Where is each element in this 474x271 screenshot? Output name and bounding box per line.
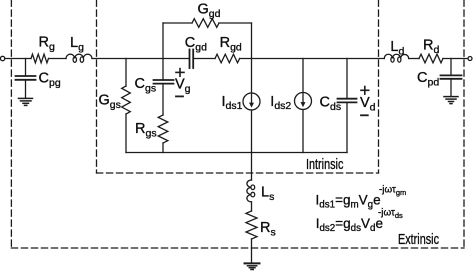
wire down to C_pg: [25, 59, 27, 77]
wire R_d to port (drain): [443, 58, 468, 60]
wire L_g to gate node: [92, 58, 189, 60]
wire port to R_g: [5, 58, 31, 60]
wire C_gd to R_gd: [193, 58, 215, 60]
svg-text:Extrinsic: Extrinsic: [398, 230, 440, 247]
resistor R_d: [419, 54, 443, 63]
current source I_ds2: [295, 93, 312, 110]
wire C_pd to ground: [450, 79, 452, 96]
V_d minus sign: [361, 114, 368, 116]
inductor L_g: [66, 54, 92, 58]
G_gs branch wire bottom: [125, 114, 127, 153]
capacitor C_gs: [154, 79, 174, 81]
port (gate): [0, 56, 4, 60]
wire R_g to L_g: [49, 58, 67, 60]
resistor R_g: [31, 54, 49, 63]
wire G_gd left: [163, 22, 192, 24]
capacitor C_pd: [441, 74, 462, 76]
intrinsic box right dashed edge: [378, 0, 380, 173]
capacitor C_ds: [338, 98, 357, 100]
current source I_ds1: [243, 93, 260, 110]
intrinsic box left dashed edge: [96, 0, 98, 173]
drain node down to I_ds1: [251, 59, 253, 94]
extrinsic box bottom dashed edge: [11, 247, 464, 249]
wire C_gs to R_gs: [162, 84, 164, 115]
ground (under R_s): [245, 262, 260, 264]
svg-text:Intrinsic: Intrinsic: [306, 155, 344, 172]
wire L_d to R_d: [409, 58, 419, 60]
wire G_gd down to drain node: [251, 23, 253, 59]
capacitor C_pg: [16, 75, 36, 77]
wire I_ds2 to source rail: [302, 110, 304, 153]
V_g plus sign: [176, 71, 184, 73]
inductor L_d: [384, 54, 408, 58]
wire R_gd to drain side: [240, 58, 385, 60]
equation I_ds2: [316, 208, 403, 234]
resistor R_gs: [158, 115, 168, 143]
C_ds branch top wire: [346, 59, 348, 99]
ground (under C_pd): [444, 96, 458, 98]
gate node down to C_gs: [162, 59, 164, 81]
wire R_gs to source rail: [162, 143, 164, 153]
extrinsic box right dashed edge: [463, 0, 465, 248]
port (drain): [468, 57, 472, 61]
inductor L_s: [247, 180, 252, 202]
extrinsic box left dashed edge: [10, 0, 12, 248]
wire R_s to ground: [251, 239, 253, 263]
intrinsic box bottom dashed edge: [97, 172, 379, 174]
wire C_ds to source rail: [346, 102, 348, 152]
V_g minus sign: [176, 95, 183, 97]
wire C_pg to ground: [25, 80, 27, 98]
wire rail down to L_s: [251, 153, 253, 181]
wire L_s to R_s: [251, 202, 253, 211]
resistor R_s: [246, 211, 257, 239]
V_d plus sign: [361, 89, 369, 91]
ground (under C_pg): [19, 97, 33, 99]
I_ds2 branch top wire: [302, 59, 304, 93]
gate node vertical up to G_gd: [162, 23, 164, 59]
conductance G_gs (resistor): [122, 86, 131, 114]
equation I_ds1: [316, 185, 407, 211]
G_gs branch wire top: [125, 59, 127, 87]
wire I_ds1 to source rail: [251, 110, 253, 153]
resistor R_gd: [215, 54, 240, 63]
wire G_gd right: [219, 22, 252, 24]
capacitor C_gd (series): [189, 50, 191, 69]
source rail: [126, 152, 347, 154]
wire down to C_pd: [450, 59, 452, 76]
conductance G_gd (resistor): [192, 19, 219, 28]
